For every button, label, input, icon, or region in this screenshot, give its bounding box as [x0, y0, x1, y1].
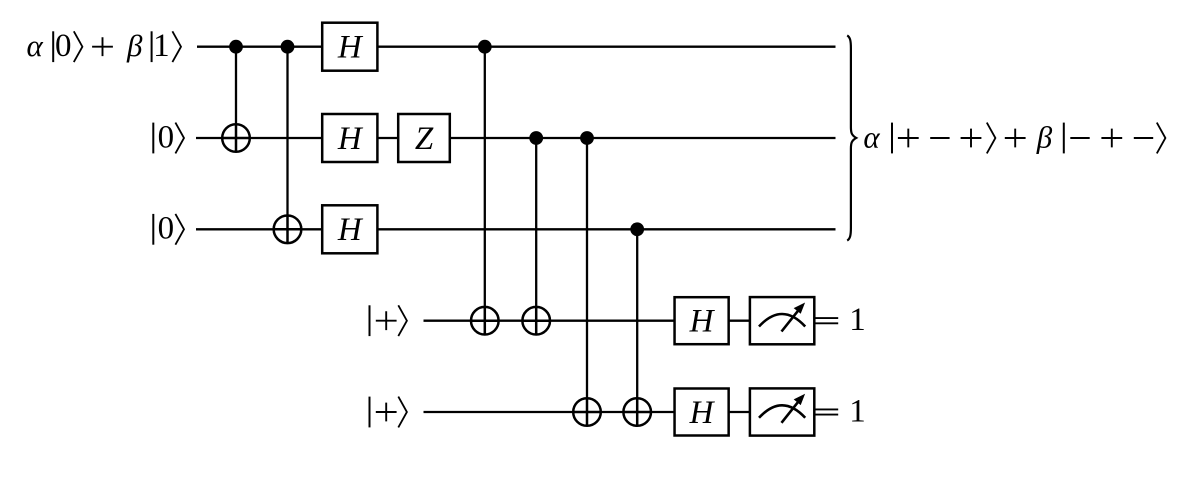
svg-text:α: α	[26, 28, 43, 63]
gate H on q3	[675, 297, 729, 344]
svg-text:β: β	[126, 28, 143, 63]
wire q4	[424, 411, 752, 413]
brace grouping q0-q2	[847, 35, 856, 240]
wire CNOT q0-q3 vertical	[484, 47, 486, 335]
control dot q2 (CNOT q2-q4)	[630, 222, 644, 236]
svg-text:0: 0	[55, 28, 72, 64]
wire q3	[424, 320, 752, 322]
label q2: |0>	[153, 211, 184, 247]
gate H on q0	[322, 23, 377, 71]
svg-text:H: H	[337, 121, 364, 157]
label q4: |+>	[370, 397, 407, 428]
gate H on q1	[322, 114, 377, 162]
label q0: alpha|0>+beta|1>	[26, 28, 181, 64]
wire CNOT q1-q4 vertical	[586, 138, 588, 426]
control dot q0 (CNOT q0-q1)	[229, 40, 243, 54]
svg-text:H: H	[689, 304, 716, 340]
wire CNOT q1-q3 vertical	[535, 138, 537, 335]
label q3: |+>	[370, 305, 407, 336]
svg-text:1: 1	[153, 28, 170, 64]
CNOT target on q1	[222, 124, 250, 152]
control dot q1 (CNOT q1-q3)	[529, 131, 543, 145]
gate H on q2	[322, 205, 377, 253]
svg-text:H: H	[337, 212, 364, 248]
CNOT target on q3 (first)	[471, 307, 499, 335]
classical double wire q3	[814, 318, 838, 323]
measurement meter on q3	[750, 297, 814, 344]
CNOT target on q4 (first)	[573, 398, 601, 426]
measurement meter on q4	[750, 388, 814, 435]
classical double wire q4	[814, 409, 838, 414]
control dot q0 (CNOT q0-q2)	[281, 40, 295, 54]
wire q1	[196, 137, 836, 139]
CNOT target on q4 (second)	[623, 398, 651, 426]
gate Z on q1	[398, 114, 450, 162]
svg-text:0: 0	[158, 119, 175, 155]
CNOT target on q2	[274, 216, 302, 244]
wire q2	[196, 228, 836, 230]
svg-text:0: 0	[158, 211, 175, 247]
svg-text:Z: Z	[415, 121, 434, 157]
output state label: alpha|+-+> + beta|-+->	[863, 119, 1165, 154]
wire CNOT q0-q1 vertical	[235, 47, 237, 152]
svg-text:1: 1	[849, 302, 866, 338]
svg-text:1: 1	[849, 393, 866, 429]
wire CNOT q2-q4 vertical	[636, 229, 638, 425]
wire CNOT q0-q2 vertical	[286, 47, 288, 243]
svg-text:H: H	[689, 395, 716, 431]
control dot q1 (CNOT q1-q4)	[580, 131, 594, 145]
svg-text:β: β	[1036, 119, 1053, 154]
wire q0	[197, 46, 836, 48]
CNOT target on q3 (second)	[522, 307, 550, 335]
svg-text:α: α	[863, 119, 880, 154]
svg-text:H: H	[337, 30, 364, 66]
label q1: |0>	[153, 119, 184, 155]
gate H on q4	[675, 389, 729, 436]
control dot q0 (CNOT q0-q3)	[478, 40, 492, 54]
